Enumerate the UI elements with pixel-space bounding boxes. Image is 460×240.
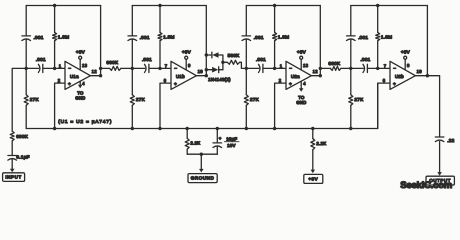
wire: bottom bias bus	[26, 83, 378, 128]
node: ground tap	[200, 153, 203, 156]
node: 1.8M junction stage 3	[273, 67, 276, 70]
svg-text:+: +	[174, 83, 177, 88]
svg-text:+8V: +8V	[182, 49, 192, 54]
node: bus junction +8V 2.2K	[311, 127, 314, 130]
GND pin 4 arrow (U2a)	[300, 81, 302, 89]
node: bus junction 2.2K	[186, 127, 189, 130]
op-amp U2a	[286, 61, 311, 89]
wire: rail down-leg to C3a	[245, 6, 247, 36]
capacitor C3b .001 (series)	[259, 64, 261, 72]
wire: stage 1 top feedback rail	[26, 5, 100, 7]
+8V supply terminal pin 9	[404, 56, 407, 59]
svg-text:680K: 680K	[16, 134, 29, 139]
svg-text:4: 4	[303, 81, 306, 86]
node: output junction stage 2	[205, 74, 208, 77]
svg-text:1.8M: 1.8M	[381, 34, 392, 39]
svg-text:7: 7	[384, 63, 387, 68]
svg-text:U2b: U2b	[395, 74, 404, 79]
svg-text:1.8M: 1.8M	[58, 34, 69, 39]
svg-text:−: −	[174, 67, 177, 72]
resistor R1 680K (input)	[10, 131, 14, 141]
svg-text:+8V: +8V	[401, 49, 411, 54]
svg-text:1N4148(2): 1N4148(2)	[208, 77, 231, 82]
+8V supply terminal pin 9	[185, 56, 188, 59]
svg-text:2.2K: 2.2K	[316, 141, 326, 146]
wire: output pin 12	[311, 75, 320, 77]
svg-text:.001: .001	[360, 57, 370, 62]
svg-text:10: 10	[417, 69, 423, 74]
svg-text:.001: .001	[254, 35, 264, 40]
terminal box +8V	[304, 174, 323, 183]
resistor R1g 27K	[25, 68, 27, 94]
wire: node to C1b	[26, 67, 38, 69]
node: stage 4 input node	[349, 67, 352, 70]
svg-text:−: −	[289, 67, 292, 72]
node: bus junction pin 6 stage 2	[158, 127, 161, 130]
wire: output pin 12	[90, 75, 100, 77]
svg-text:680K: 680K	[106, 60, 119, 65]
svg-text:1.8M: 1.8M	[278, 34, 289, 39]
wire: diode rejoin riser	[222, 55, 224, 70]
node: rail junction stage 1	[53, 4, 56, 7]
resistor R2g 27K	[131, 68, 133, 94]
diode D1 1N4148 (cathode left)	[211, 52, 213, 58]
svg-text:2.2K: 2.2K	[190, 141, 200, 146]
svg-text:12: 12	[92, 69, 98, 74]
svg-text:U1b: U1b	[176, 74, 185, 79]
node: stage 3 input node	[245, 67, 248, 70]
GND pin 4 arrow (U1a)	[79, 81, 81, 85]
capacitor C2b .001 (series)	[145, 64, 147, 72]
wire: ground rail	[187, 153, 217, 155]
svg-text:4: 4	[82, 81, 85, 86]
wire: stage 2 top feedback rail	[132, 5, 206, 7]
wire: rail down-leg to C1a	[25, 6, 27, 36]
svg-text:+: +	[393, 83, 396, 88]
svg-text:.001: .001	[358, 35, 368, 40]
svg-text:16V: 16V	[227, 143, 236, 148]
node: 1.8M junction stage 2	[158, 67, 161, 70]
node: 1.8M junction stage 1	[53, 67, 56, 70]
svg-text:10: 10	[198, 69, 204, 74]
op-amp U2b	[390, 61, 415, 89]
wire: node to C3b	[246, 67, 258, 69]
svg-text:.22: .22	[447, 138, 454, 143]
svg-text:9: 9	[188, 63, 191, 68]
node: bus junction 10uF	[216, 127, 219, 130]
capacitor C2a .001 (vertical)	[128, 35, 137, 37]
svg-text:GND: GND	[296, 100, 306, 105]
node: bus junction 27K stage 3	[245, 127, 248, 130]
resistor R3g 27K	[245, 68, 247, 94]
arrow into OUTPUT	[437, 172, 442, 176]
node: bus junction pin 2 stage 1	[53, 127, 56, 130]
node: bus junction 27K stage 4	[349, 127, 352, 130]
wire: bottom diode branch	[206, 69, 212, 71]
wire: output pin 10	[196, 75, 206, 77]
wire: rail down-leg to C4a	[350, 6, 352, 36]
node: rail junction stage 4	[376, 4, 379, 7]
node: 680K tap stage 3	[319, 67, 322, 70]
wire: output to coupling cap	[427, 76, 439, 137]
op-amp U1a	[65, 61, 90, 89]
wire: rail down-leg to C2a	[131, 6, 133, 36]
capacitor C0 0.1uF	[8, 155, 17, 157]
node: rail junction stage 2	[158, 4, 161, 7]
svg-text:+8V: +8V	[76, 49, 86, 54]
svg-text:+: +	[289, 83, 292, 88]
node: output junction stage 3	[319, 74, 322, 77]
svg-text:1: 1	[59, 63, 62, 68]
svg-text:+8V: +8V	[297, 49, 307, 54]
wire: top diode branch	[206, 54, 211, 56]
node: rail junction stage 3	[273, 4, 276, 7]
svg-text:.001: .001	[36, 57, 46, 62]
arrow into GROUND	[200, 154, 202, 169]
svg-text:.001: .001	[256, 57, 266, 62]
svg-text:−: −	[393, 67, 396, 72]
wire: C4b to inverting input pin 7	[367, 67, 390, 69]
capacitor C5 10uF/16V	[216, 129, 218, 143]
capacitor C4a .001 (vertical)	[347, 35, 356, 37]
wire: pin 6 stub	[160, 83, 171, 128]
svg-text:−: −	[68, 67, 71, 72]
resistor R1f 1.8M	[54, 6, 56, 33]
resistor R4g 27K	[350, 68, 352, 94]
node: bus junction pin 2 stage 3	[273, 127, 276, 130]
node: output junction stage 1	[99, 74, 102, 77]
node: 1.8M junction stage 4	[376, 67, 379, 70]
wire: feedback riser stage 4	[426, 6, 428, 76]
wire: pin 6 stub	[378, 83, 390, 128]
svg-text:27K: 27K	[136, 97, 146, 102]
node: bus junction 27K stage 2	[131, 127, 134, 130]
+8V supply terminal pin 13	[79, 56, 82, 59]
svg-text:U1a: U1a	[70, 74, 79, 79]
svg-text:U2a: U2a	[291, 74, 300, 79]
svg-text:10µF: 10µF	[226, 136, 237, 141]
svg-text:0.1µF: 0.1µF	[16, 155, 29, 160]
terminal box GROUND	[188, 174, 217, 183]
wire: feedback riser stage 1	[100, 6, 102, 76]
capacitor C1b .001 (series)	[38, 64, 40, 72]
svg-text:SeekIC.com: SeekIC.com	[400, 180, 452, 191]
wire: input node branch	[12, 68, 26, 131]
svg-text:.001: .001	[34, 35, 44, 40]
svg-text:27K: 27K	[30, 97, 40, 102]
svg-text:+: +	[219, 136, 222, 141]
capacitor C4b .001 (series)	[363, 64, 365, 72]
resistor R3f 1.8M	[274, 6, 276, 33]
svg-text:7: 7	[165, 63, 168, 68]
node: 560K tap	[221, 61, 224, 64]
wire: stage 3 top feedback rail	[246, 5, 320, 7]
svg-text:1.8M: 1.8M	[163, 34, 174, 39]
svg-text:INPUT: INPUT	[5, 175, 22, 180]
capacitor C1a .001 (vertical)	[22, 35, 31, 37]
resistor R2f 1.8M	[159, 6, 161, 33]
svg-text:1: 1	[280, 63, 283, 68]
svg-text:GROUND: GROUND	[191, 176, 215, 181]
resistor R4 680K (interstage)	[320, 67, 330, 69]
node: diode branch bottom tap	[205, 68, 208, 71]
node: output junction stage 4	[426, 74, 429, 77]
svg-text:560K: 560K	[228, 53, 241, 58]
node: diode branch top tap	[205, 53, 208, 56]
svg-text:GND: GND	[75, 96, 85, 101]
wire: C3b to inverting input pin 1	[263, 67, 286, 69]
resistor R5 2.2K	[186, 129, 188, 139]
resistor R2 680K (interstage)	[101, 67, 110, 69]
wire: feedback riser stage 3	[319, 6, 321, 76]
diode D2 1N4148 (cathode right)	[212, 67, 218, 73]
wire: node to C2b	[132, 67, 144, 69]
resistor R4f 1.8M	[377, 6, 379, 33]
terminal box INPUT	[3, 173, 25, 182]
arrow into INPUT	[10, 169, 15, 173]
capacitor C6 .22	[435, 136, 444, 138]
svg-text:9: 9	[407, 63, 410, 68]
svg-text:27K: 27K	[354, 97, 364, 102]
resistor R6 2.2K	[312, 129, 314, 139]
terminal box OUTPUT	[426, 176, 454, 185]
svg-text:+8V: +8V	[308, 177, 318, 182]
circuit schematic: 4-stage uA747 phase-shift oscillator	[0, 0, 460, 192]
wire: feedback riser stage 2	[205, 6, 207, 76]
node: stage 1 input node	[25, 67, 28, 70]
capacitor C3a .001 (vertical)	[242, 35, 251, 37]
svg-text:13: 13	[82, 63, 88, 68]
svg-text:27K: 27K	[250, 97, 260, 102]
arrow into +8V	[311, 170, 316, 174]
wire: pin 2 stub	[275, 83, 286, 128]
svg-text:.001: .001	[142, 57, 152, 62]
resistor R3 560K	[223, 61, 227, 63]
node: 680K tap stage 1	[99, 67, 102, 70]
+8V supply terminal pin 13	[300, 56, 303, 59]
node: stage 2 input node	[131, 67, 134, 70]
svg-text:12: 12	[313, 69, 319, 74]
svg-text:680K: 680K	[328, 61, 341, 66]
svg-text:(U1 = U2 = µA747): (U1 = U2 = µA747)	[58, 119, 112, 125]
svg-text:13: 13	[303, 63, 309, 68]
svg-text:+: +	[68, 83, 71, 88]
wire: output pin 10	[415, 75, 427, 77]
wire: node to C4b	[351, 67, 363, 69]
op-amp U1b	[171, 61, 196, 89]
wire: stage 4 top feedback rail	[351, 5, 428, 7]
wire: C1b to inverting input pin 1	[43, 67, 65, 69]
wire: C2b to inverting input pin 7	[149, 67, 171, 69]
wire: pin 2 stub	[55, 83, 65, 128]
svg-text:.001: .001	[140, 35, 150, 40]
